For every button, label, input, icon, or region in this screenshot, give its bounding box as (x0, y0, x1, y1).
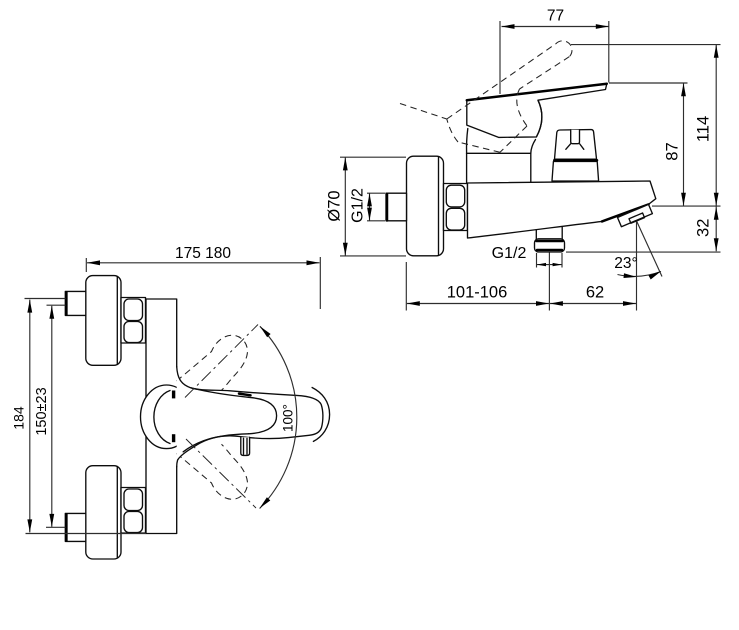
svg-text:G1/2: G1/2 (350, 188, 367, 223)
mixer body side with spout (468, 181, 656, 238)
lever grip inner contour (191, 388, 249, 397)
svg-text:23°: 23° (614, 255, 637, 272)
aerator on spout tip (618, 204, 653, 226)
svg-text:175 180: 175 180 (175, 245, 231, 262)
svg-text:32: 32 (695, 219, 713, 237)
dim 184 (11, 299, 147, 534)
dim Ø70 (326, 157, 407, 256)
dim G1/2 bottom shower outlet (492, 245, 562, 268)
lever handle solid plan (177, 367, 323, 467)
svg-text:114: 114 (695, 116, 713, 142)
lever tip inner arc (249, 397, 277, 434)
G1/2 inlet nipple side (386, 193, 407, 221)
union hex nut side (444, 184, 468, 231)
lever handle solid (side) (467, 84, 607, 138)
dim 23 degrees (614, 222, 662, 280)
lever grip inner bottom contour (183, 434, 248, 452)
hot cold tick top (172, 391, 175, 399)
svg-text:G1/2: G1/2 (492, 245, 527, 262)
shower outlet pipe (536, 227, 562, 239)
dim 175 180 (86, 245, 320, 309)
bottom wall escutcheon plan (86, 466, 121, 559)
lever end lip arc (312, 388, 330, 442)
svg-text:87: 87 (664, 142, 682, 160)
lever grip ridge (239, 394, 251, 396)
centerline handle down (186, 439, 256, 508)
svg-text:100°: 100° (281, 404, 296, 432)
dim 87 (609, 83, 688, 206)
shower outlet G1/2 connector (535, 239, 565, 252)
lever handle raised (dashed) (400, 41, 572, 152)
bottom hex nut plan (121, 488, 146, 534)
diverter knob (552, 130, 599, 181)
dim 62 (550, 222, 637, 311)
dashed handle rotated up (177, 335, 248, 390)
svg-text:184: 184 (11, 406, 27, 430)
top wall escutcheon plan (86, 276, 121, 366)
dim 101-106 (406, 253, 549, 311)
svg-text:150±23: 150±23 (34, 387, 50, 435)
dim G1/2 left (350, 188, 386, 223)
centerline handle up (185, 325, 258, 398)
bottom G1/2 nipple plan (65, 513, 86, 541)
dim 77 (500, 8, 609, 95)
svg-text:77: 77 (547, 8, 564, 25)
top hex nut plan (121, 298, 146, 344)
100 degree arc (260, 326, 297, 508)
svg-text:Ø70: Ø70 (326, 190, 344, 221)
cartridge dome and escutcheon column (467, 129, 536, 184)
wall escutcheon side (407, 156, 444, 256)
svg-text:101-106: 101-106 (447, 284, 508, 302)
lever pin plan (241, 437, 250, 455)
handle cap plan (141, 385, 193, 449)
top G1/2 nipple plan (65, 291, 86, 315)
dim 150 plus minus 23 (34, 305, 66, 527)
hot cold tick bottom (172, 434, 175, 442)
mixer body plan (146, 299, 177, 534)
dim 114 (571, 45, 721, 252)
dim 32 (566, 206, 721, 252)
svg-text:62: 62 (586, 284, 604, 302)
dashed handle rotated down (177, 444, 248, 499)
